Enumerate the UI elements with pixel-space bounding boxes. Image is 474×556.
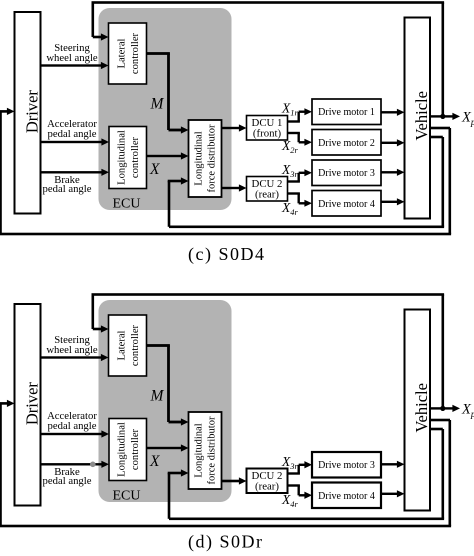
wire DCU output X4r (d)	[288, 484, 300, 486]
ECU enclosure (d)	[99, 300, 232, 502]
svg-text:Longitudinal: Longitudinal	[117, 130, 128, 185]
svg-text:pedal angle: pedal angle	[48, 420, 97, 432]
arrow into Driver (d)	[0, 402, 8, 405]
wire outer feedback left riser (c)	[0, 111, 2, 234]
svg-text:Vehicle: Vehicle	[412, 383, 431, 432]
wire DCU output X3r (d)	[288, 472, 300, 474]
svg-text:force distributor: force distributor	[207, 416, 218, 484]
wire inner feedback: Vehicle right to distributor (d)	[430, 428, 443, 431]
block Drive motor 3 (d)	[312, 452, 381, 478]
svg-text:Longitudinal: Longitudinal	[117, 422, 128, 477]
wire Vehicle output (c)	[430, 115, 454, 117]
svg-text:(rear): (rear)	[255, 189, 279, 201]
wire Drive motor 4 to Vehicle (d)	[381, 493, 398, 495]
svg-text:Drive motor 4: Drive motor 4	[318, 199, 375, 210]
svg-text:X: X	[149, 161, 160, 178]
svg-text:Longitudinal: Longitudinal	[194, 423, 205, 477]
block Vehicle (c)	[405, 18, 431, 219]
block DCU 2 (rear) (d)	[247, 469, 288, 494]
block Longitudinal force distributor (c)	[189, 120, 222, 197]
block Drive motor 4 (d)	[312, 483, 381, 509]
svg-text:pedal angle: pedal angle	[43, 183, 92, 195]
block DCU 2 (rear) (c)	[247, 177, 288, 202]
wire inner feedback: Vehicle right to distributor (c)	[430, 136, 443, 139]
label ECU (c)	[113, 196, 141, 211]
svg-text:pedal angle: pedal angle	[43, 475, 92, 487]
arrow into distributor feedback input (c)	[168, 180, 182, 183]
wire distributor to DCU 2 (d)	[222, 480, 241, 483]
wire outer feedback: Vehicle right to bottom (c)	[430, 127, 450, 130]
wire DCU output X3r (c)	[288, 180, 300, 182]
wire steering wheel angle (c)	[41, 64, 102, 66]
arrow into distributor feedback input (d)	[168, 472, 182, 475]
svg-text:wheel angle: wheel angle	[46, 52, 98, 64]
svg-text:Driver: Driver	[22, 382, 41, 426]
arrow into Driver (c)	[0, 110, 8, 113]
svg-text:(c) S0D4: (c) S0D4	[188, 244, 266, 265]
block Longitudinal force distributor (d)	[189, 412, 222, 489]
svg-text:Drive motor 1: Drive motor 1	[318, 107, 375, 118]
svg-text:Longitudinal: Longitudinal	[194, 131, 205, 185]
block Driver (c)	[15, 12, 41, 214]
block Driver (d)	[15, 304, 41, 506]
label Accelerator pedal angle (c)	[47, 118, 97, 140]
svg-text:Drive motor 2: Drive motor 2	[318, 138, 375, 149]
wire DCU output X4r (c)	[288, 192, 300, 194]
svg-text:ECU: ECU	[113, 488, 141, 503]
svg-text:Driver: Driver	[22, 90, 41, 134]
diagram (d) S0Dr	[0, 293, 474, 552]
svg-text:Drive motor 4: Drive motor 4	[318, 491, 375, 502]
svg-text:M: M	[150, 96, 165, 113]
svg-text:controller: controller	[130, 324, 141, 366]
label Steering wheel angle (d)	[46, 334, 98, 356]
wire top feedback: Vehicle output to Lateral controller (d)	[92, 293, 445, 296]
svg-text:(front): (front)	[253, 128, 282, 140]
wire outer feedback: Vehicle right to bottom (d)	[430, 419, 450, 422]
block Lateral controller (c)	[109, 23, 147, 84]
diagram (c) S0D4	[0, 1, 474, 265]
block Longitudinal controller (c)	[109, 127, 147, 189]
svg-text:X: X	[149, 453, 160, 470]
wire top feedback right riser (d)	[442, 295, 445, 409]
wire Drive motor 1 to Vehicle (c)	[381, 111, 398, 113]
svg-text:Drive motor 3: Drive motor 3	[318, 168, 375, 179]
block DCU 1 (front)	[247, 116, 288, 141]
svg-text:(rear): (rear)	[255, 481, 279, 493]
block Drive motor 3 (c)	[312, 160, 381, 186]
wire DCU output X2r (c)	[288, 132, 300, 134]
wire M: Lateral controller to distributor (d)	[147, 344, 170, 347]
junction dot (c)	[440, 114, 445, 119]
label Brake pedal angle (c)	[43, 174, 92, 195]
svg-text:controller: controller	[130, 32, 141, 74]
wire DCU output X1r (c)	[288, 120, 300, 122]
svg-text:(d) S0Dr: (d) S0Dr	[188, 532, 264, 553]
wire Vehicle output (d)	[430, 407, 454, 409]
svg-text:Drive motor 3: Drive motor 3	[318, 460, 375, 471]
label Accelerator pedal angle (d)	[47, 410, 97, 432]
wire Drive motor 3 to Vehicle (d)	[381, 463, 398, 465]
block Drive motor 1 (c)	[312, 99, 381, 125]
svg-text:wheel angle: wheel angle	[46, 344, 98, 356]
wire distributor to DCU 2 (c)	[222, 187, 241, 189]
svg-text:Vehicle: Vehicle	[412, 91, 431, 140]
block Lateral controller (d)	[109, 315, 147, 376]
wire Drive motor 2 to Vehicle (c)	[381, 142, 398, 144]
wire top feedback: Vehicle output to Lateral controller (c)	[92, 1, 445, 4]
svg-text:M: M	[150, 388, 165, 405]
wire top feedback right riser (c)	[442, 3, 445, 117]
wire M: Lateral controller to distributor (c)	[147, 52, 170, 55]
svg-text:Lateral: Lateral	[117, 38, 128, 68]
wire Drive motor 3 to Vehicle (c)	[381, 171, 398, 173]
wire brake pedal angle (d)	[41, 463, 102, 465]
label Steering wheel angle (c)	[46, 42, 98, 64]
svg-text:ECU: ECU	[113, 196, 141, 211]
wire accelerator pedal angle (d)	[41, 433, 102, 435]
wire steering wheel angle (d)	[41, 356, 102, 358]
gray junction dot on brake wire (d)	[90, 462, 96, 468]
svg-text:controller: controller	[130, 136, 141, 178]
block Vehicle (d)	[405, 310, 431, 511]
label Brake pedal angle (d)	[43, 466, 92, 487]
wire X: Longitudinal controller to distributor (c)	[147, 155, 183, 157]
label ECU (d)	[113, 488, 141, 503]
svg-text:force distributor: force distributor	[207, 124, 218, 192]
block Drive motor 2 (c)	[312, 130, 381, 156]
svg-text:Lateral: Lateral	[117, 330, 128, 360]
block Longitudinal controller (d)	[109, 419, 147, 481]
wire accelerator pedal angle (c)	[41, 141, 102, 143]
wire outer feedback left riser (d)	[0, 403, 2, 526]
wire brake pedal angle (c)	[41, 171, 102, 173]
block Drive motor 4 (c)	[312, 191, 381, 217]
svg-text:controller: controller	[130, 428, 141, 470]
wire distributor to DCU 1	[222, 127, 241, 129]
ECU enclosure (c)	[99, 8, 232, 210]
wire Drive motor 4 to Vehicle (c)	[381, 201, 398, 203]
wire X: Longitudinal controller to distributor (d)	[147, 447, 183, 449]
junction dot (d)	[440, 406, 445, 411]
svg-text:pedal angle: pedal angle	[48, 128, 97, 140]
